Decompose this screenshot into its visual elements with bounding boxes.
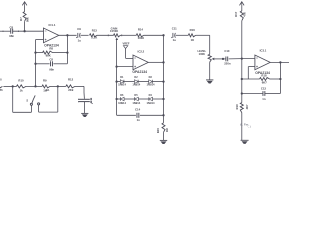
- svg-text:C150K: C150K: [110, 29, 118, 33]
- svg-text:R18: R18: [261, 73, 267, 77]
- svg-text:1u: 1u: [78, 38, 82, 42]
- svg-text:C14: C14: [135, 108, 141, 112]
- svg-text:100K: 100K: [199, 52, 205, 56]
- svg-text:R12: R12: [68, 78, 74, 82]
- svg-text:2.2K: 2.2K: [91, 36, 97, 40]
- svg-text:C8: C8: [49, 58, 53, 62]
- svg-text:R19: R19: [235, 104, 239, 109]
- svg-text:S: S: [26, 99, 28, 103]
- svg-text:VREF: VREF: [123, 42, 130, 46]
- svg-text:C10: C10: [224, 49, 230, 53]
- svg-text:R10: R10: [18, 79, 24, 83]
- svg-text:R16: R16: [190, 28, 196, 32]
- svg-text:1N914: 1N914: [132, 101, 140, 105]
- svg-text:220n: 220n: [224, 61, 231, 65]
- svg-text:S1: S1: [46, 88, 50, 92]
- svg-text:OPA2134: OPA2134: [132, 70, 147, 74]
- svg-text:6K7: 6K7: [262, 81, 268, 85]
- svg-text:1n: 1n: [262, 97, 266, 101]
- svg-text:C11: C11: [172, 27, 177, 31]
- svg-text:1M: 1M: [165, 128, 169, 133]
- svg-text:47K: 47K: [242, 12, 246, 17]
- svg-text:R17: R17: [234, 11, 238, 16]
- svg-text:R7: R7: [19, 17, 23, 21]
- svg-text:IC2.2: IC2.2: [138, 50, 145, 54]
- svg-text:1N914: 1N914: [147, 101, 155, 105]
- svg-text:1K: 1K: [191, 38, 195, 42]
- svg-text:1N914: 1N914: [132, 83, 140, 87]
- svg-text:1N914: 1N914: [147, 83, 155, 87]
- svg-text:100K: 100K: [137, 36, 144, 40]
- svg-text:2K9: 2K9: [68, 88, 74, 92]
- svg-text:IC1.1: IC1.1: [49, 23, 56, 27]
- svg-text:C9: C9: [77, 27, 81, 31]
- svg-text:4K7: 4K7: [245, 104, 249, 109]
- svg-text:R8: R8: [49, 46, 53, 50]
- svg-text:1N914: 1N914: [118, 83, 126, 87]
- svg-text:1N914: 1N914: [118, 101, 126, 105]
- svg-text:1u: 1u: [173, 38, 177, 42]
- svg-text:1k: 1k: [20, 89, 24, 93]
- svg-text:R15: R15: [156, 128, 160, 134]
- svg-text:- , ): - , ): [247, 126, 251, 129]
- svg-text:R13: R13: [92, 29, 98, 33]
- svg-text:C8: C8: [10, 25, 14, 29]
- svg-text:98K: 98K: [26, 17, 30, 22]
- svg-text:98n: 98n: [49, 68, 54, 72]
- svg-text:R9: R9: [43, 79, 47, 83]
- svg-text:IC3.1: IC3.1: [260, 48, 267, 52]
- svg-text:1n: 1n: [137, 118, 141, 122]
- svg-text:C13: C13: [261, 87, 267, 91]
- svg-text:98n: 98n: [9, 34, 14, 38]
- svg-text:R14: R14: [138, 28, 144, 32]
